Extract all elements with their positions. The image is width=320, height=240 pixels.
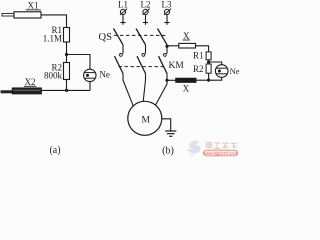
probe X2 tip xyxy=(1,91,12,93)
wire QS to KM L2 xyxy=(145,45,147,54)
svg-text:R2: R2 xyxy=(193,64,204,74)
contactor KM blade L2 xyxy=(137,56,146,73)
svg-text:M: M xyxy=(141,116,150,126)
wire branch to lamp (a) xyxy=(67,55,91,70)
label QS xyxy=(99,32,113,43)
wire R2 node to X bottom xyxy=(196,79,209,81)
watermark logo xyxy=(187,141,201,156)
resistor R2 (a) xyxy=(64,63,70,80)
svg-text:L1: L1 xyxy=(118,0,128,10)
neon lamp Ne (b) xyxy=(215,65,228,78)
svg-text:X2: X2 xyxy=(25,77,36,87)
wire X1 to R1 (horizontal) xyxy=(41,15,67,28)
svg-text:X: X xyxy=(183,31,190,41)
label R1 (a) xyxy=(43,25,62,43)
wire R2 bottom (b) xyxy=(208,73,210,80)
wire L1 drop xyxy=(122,14,124,24)
probe X1 body xyxy=(14,12,41,18)
svg-text:Ne: Ne xyxy=(99,69,110,79)
caption (a) xyxy=(49,145,60,156)
label L3 xyxy=(162,0,172,10)
svg-text:L2: L2 xyxy=(141,0,151,10)
node tap top (b) on L3 xyxy=(165,45,168,48)
wire lamp bottom (a) xyxy=(89,82,91,91)
label R2 (a) xyxy=(44,62,63,80)
watermark url pill xyxy=(203,150,239,156)
svg-text:QS: QS xyxy=(99,32,113,43)
QS linkage dashed xyxy=(114,34,166,36)
resistor R1 (a) xyxy=(64,28,70,43)
node junction B (a) xyxy=(65,89,68,92)
node junction A (a) xyxy=(65,53,68,56)
node junction C (b) xyxy=(207,60,210,63)
svg-text:R1: R1 xyxy=(193,51,204,61)
wire R1 to R2 vertical xyxy=(66,42,68,63)
wire tap to resistor X top xyxy=(167,45,179,47)
wire X bottom to L3 xyxy=(167,79,176,81)
contactor KM hook L1 xyxy=(120,54,123,57)
probe X1 tip xyxy=(2,13,14,16)
svg-text:X: X xyxy=(183,84,190,94)
svg-text:Ne: Ne xyxy=(230,66,240,76)
label L1 xyxy=(118,0,128,10)
label R2 (b) xyxy=(193,64,204,74)
switch QS blade L1 xyxy=(114,29,124,45)
ground xyxy=(165,131,176,136)
wire KM to motor L2 xyxy=(143,74,145,102)
svg-text:X1: X1 xyxy=(28,1,39,11)
svg-text:www.dgjs123.com: www.dgjs123.com xyxy=(203,150,239,155)
label X top with underline xyxy=(183,31,190,41)
resistor R2 (b) xyxy=(206,64,211,73)
switch QS blade L2 xyxy=(136,29,146,45)
neon lamp Ne (a) xyxy=(84,69,96,81)
caption (b) xyxy=(162,146,174,157)
wire R1 to R2 (b) xyxy=(208,60,210,64)
switch QS blade L3 xyxy=(158,29,168,45)
label X1 xyxy=(28,1,39,11)
wire KM to motor L1 xyxy=(123,74,133,107)
watermark text 电工天下 xyxy=(207,142,237,149)
KM linkage dashed xyxy=(119,66,165,68)
terminal L3 xyxy=(164,9,171,15)
underline of X2 xyxy=(24,85,37,87)
svg-text:800k: 800k xyxy=(44,70,63,80)
contactor KM hook L2 xyxy=(142,54,145,57)
terminal L2 xyxy=(143,9,150,15)
wire L3 drop xyxy=(166,14,168,24)
svg-text:1.1M: 1.1M xyxy=(43,33,62,43)
label X bottom xyxy=(183,84,190,94)
wire X top to R1 (b) xyxy=(196,46,209,52)
wire bottom (a) xyxy=(41,89,90,91)
contactor KM hook L3 xyxy=(164,54,167,57)
resistor X top xyxy=(179,43,196,48)
underline of X1 xyxy=(26,9,41,11)
svg-text:KM: KM xyxy=(169,61,185,71)
node tap bottom (b) on L3 xyxy=(165,79,168,82)
contact bar L1 xyxy=(120,22,125,24)
probe X2 body xyxy=(12,88,41,94)
wire motor to ground xyxy=(162,119,171,131)
label Ne (a) xyxy=(99,69,110,79)
wire branch to lamp (b) xyxy=(209,62,222,65)
resistor X bottom (filled) xyxy=(176,78,196,82)
contact bar L3 xyxy=(164,22,169,24)
terminal L1 xyxy=(120,9,127,15)
wire KM to motor L3 xyxy=(156,74,167,106)
resistor R1 (b) xyxy=(206,52,211,60)
label Ne (b) xyxy=(230,66,240,76)
wire L2 drop xyxy=(145,14,147,24)
contact bar L2 xyxy=(143,22,148,24)
svg-text:L3: L3 xyxy=(162,0,172,10)
wire QS to KM L1 xyxy=(122,45,124,54)
contactor KM blade L3 xyxy=(159,56,168,73)
svg-text:(b): (b) xyxy=(162,146,174,157)
label X2 xyxy=(25,77,36,87)
motor M1 xyxy=(128,101,162,135)
label KM xyxy=(169,61,185,71)
wire QS to KM L3 xyxy=(166,45,168,54)
contactor KM blade L1 xyxy=(115,56,124,73)
label L2 xyxy=(141,0,151,10)
label R1 (b) xyxy=(193,51,204,61)
wire lamp bottom (b) xyxy=(209,77,222,80)
wire R2 bottom xyxy=(66,80,68,91)
node junction D (b) xyxy=(207,79,210,82)
svg-text:(a): (a) xyxy=(49,145,60,156)
